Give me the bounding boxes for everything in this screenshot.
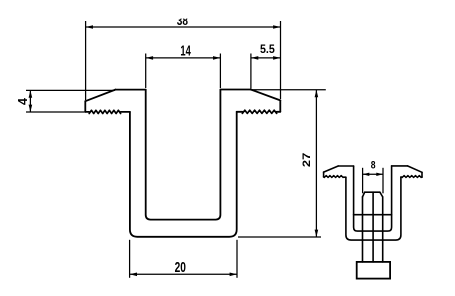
svg-text:20: 20 [175, 260, 186, 276]
rv clamp band top line [354, 214, 392, 216]
rv right underside flats [401, 176, 422, 178]
dimension 20 (bottom) [130, 240, 237, 278]
svg-text:4: 4 [15, 97, 30, 105]
left flange top edge [115, 89, 145, 91]
rv left underside flats [324, 176, 346, 178]
right flange underside flat segments [237, 111, 281, 113]
svg-text:8: 8 [371, 160, 376, 172]
bolt centre line [372, 192, 374, 262]
rv inner U contour [354, 166, 392, 231]
svg-text:5.5: 5.5 [260, 43, 275, 56]
right flange chamfer slant [251, 90, 281, 101]
bolt head right chamfer [380, 192, 383, 197]
rv left arm serration teeth [324, 176, 343, 178]
left flange tip edge [84, 101, 86, 112]
bolt head left side + shaft left edge [362, 197, 364, 262]
right flange tip edge [279, 100, 281, 111]
right flange serration teeth [242, 110, 276, 113]
rv right arm slant [408, 166, 423, 172]
svg-text:14: 14 [180, 42, 191, 59]
base block [357, 262, 390, 279]
rv right arm tip edge [421, 172, 423, 177]
left flange chamfer slant [85, 90, 115, 102]
rv right arm top edge [392, 165, 408, 167]
dimension 8 (right view) [363, 168, 383, 194]
svg-text:27: 27 [301, 153, 313, 167]
dimension 14 [146, 54, 221, 89]
dimension 4 (left) [26, 90, 115, 112]
dimension 38 (top, text half-cut) [86, 21, 281, 100]
rv outer U contour [346, 177, 401, 240]
left flange underside flat segments [85, 111, 130, 113]
bolt head top face [365, 191, 380, 193]
dimension 27 (right of main view) [238, 90, 326, 237]
bolt head left chamfer [363, 192, 365, 197]
rv left arm slant [324, 166, 339, 172]
main profile outline [85, 90, 280, 237]
rv left arm tip edge [323, 172, 325, 177]
left flange serration teeth [89, 110, 120, 113]
right flange top edge [220, 89, 250, 91]
bolt head right side + shaft right edge [382, 197, 384, 262]
channel outer contour [130, 112, 237, 237]
dimension 5.5 [251, 54, 281, 89]
channel inner contour [146, 90, 221, 220]
rv right arm serration teeth [402, 176, 421, 178]
rv left arm top edge [338, 165, 353, 167]
